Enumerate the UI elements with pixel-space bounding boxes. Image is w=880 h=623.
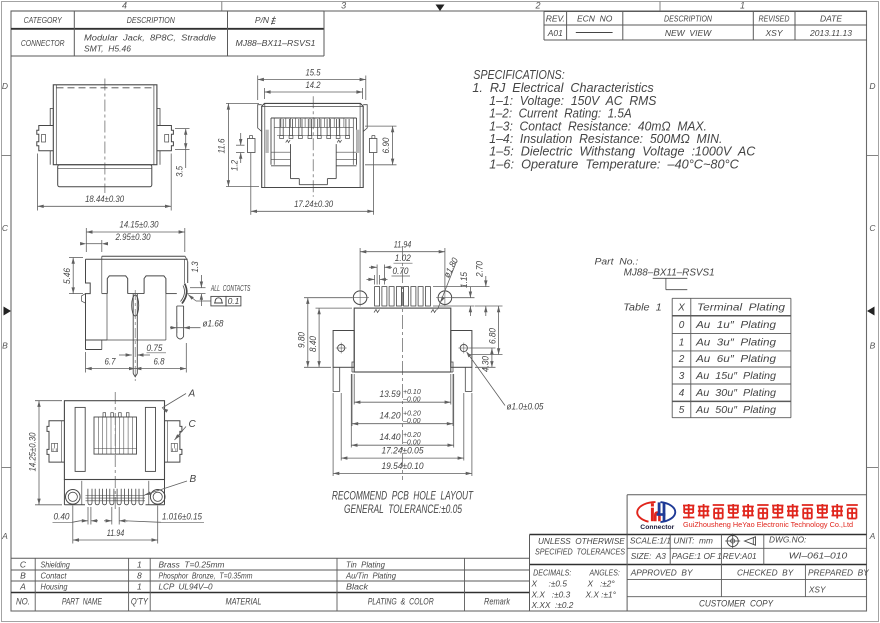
svg-text:Contact: Contact: [41, 571, 68, 580]
table1 grid: [672, 298, 791, 417]
svg-text:0.40: 0.40: [54, 512, 70, 522]
material row A housing: [19, 582, 369, 592]
svg-text:1.3: 1.3: [190, 262, 200, 273]
svg-text:Au 6u″ Plating: Au 6u″ Plating: [695, 354, 777, 365]
svg-text:Au 50u″ Plating: Au 50u″ Plating: [695, 405, 777, 416]
svg-text:MJ88–BX11–RSVS1: MJ88–BX11–RSVS1: [236, 38, 316, 48]
svg-text:XSY: XSY: [764, 28, 783, 38]
svg-text:CHECKED BY: CHECKED BY: [737, 568, 795, 578]
table1 row 0: [679, 320, 777, 331]
svg-text:P/N: P/N: [255, 15, 270, 25]
pcb dim 9.80: [297, 298, 353, 368]
view3 dim 2.95+-0.30: [80, 232, 150, 252]
svg-text:19.54±0.10: 19.54±0.10: [382, 461, 424, 471]
svg-text:PAGE:1 OF 1: PAGE:1 OF 1: [672, 551, 722, 561]
svg-text:Au 30u″ Plating: Au 30u″ Plating: [695, 388, 777, 399]
svg-text:6.7: 6.7: [105, 357, 117, 367]
view3 dim 5.46: [62, 258, 83, 294]
zone tick right lower: [867, 467, 878, 469]
pcb left pilot hole: [351, 289, 369, 307]
svg-text:2: 2: [678, 354, 685, 365]
svg-text:DESCRIPTION: DESCRIPTION: [664, 14, 713, 24]
pcb left bracket: [333, 331, 354, 392]
svg-text:ECN NO: ECN NO: [577, 14, 613, 24]
svg-text:11.94: 11.94: [107, 528, 125, 538]
view4 leader C: [175, 419, 197, 440]
pcb dim 11.94 top: [360, 240, 445, 290]
svg-text:X.X :±1°: X.X :±1°: [585, 589, 617, 599]
svg-text:4: 4: [122, 1, 127, 11]
svg-text:+0.20: +0.20: [403, 432, 421, 439]
svg-text:PART NAME: PART NAME: [62, 597, 102, 608]
svg-text:A: A: [188, 389, 196, 400]
tolerance note UNLESS OTHERWISE: [535, 537, 625, 557]
pcb left bracket hole: [336, 343, 347, 354]
view2 centerline: [312, 96, 314, 197]
svg-text:PLATING & COLOR: PLATING & COLOR: [368, 597, 434, 608]
svg-text:0.75: 0.75: [147, 343, 164, 353]
svg-text:Remark: Remark: [484, 597, 511, 608]
view4 center comb: [94, 413, 137, 454]
pcb dim 13.59: [354, 374, 451, 405]
view4 left mounting post circle: [66, 490, 81, 505]
svg-text:1: 1: [137, 559, 142, 569]
svg-text:Modular Jack, 8P8C, Straddl: Modular Jack, 8P8C, Straddle: [84, 33, 216, 43]
svg-text:Part No.:: Part No.:: [595, 257, 639, 268]
svg-text:WI–061–010: WI–061–010: [789, 551, 848, 561]
svg-text:15.5: 15.5: [306, 68, 322, 78]
pcb centerline: [402, 246, 404, 480]
svg-text:3: 3: [341, 1, 346, 11]
svg-text:ALL CONTACTS: ALL CONTACTS: [210, 284, 251, 293]
view4 dim 14.25+-0.30: [27, 401, 62, 505]
svg-text:4.30: 4.30: [481, 356, 491, 372]
svg-text:6.80: 6.80: [487, 328, 497, 344]
table1 row 2: [678, 354, 777, 365]
pcb dim 2.70: [433, 261, 490, 316]
svg-text:DATE: DATE: [820, 14, 842, 24]
svg-text:2: 2: [534, 1, 540, 11]
logo HY mark: [637, 502, 675, 522]
material row C shielding: [20, 559, 385, 569]
svg-text:XSY: XSY: [808, 585, 827, 595]
svg-text:3.5: 3.5: [174, 165, 184, 177]
svg-text:Terminal Plating: Terminal Plating: [697, 303, 786, 314]
view1 dim 3.5: [174, 129, 187, 177]
svg-text:0.70: 0.70: [393, 266, 409, 276]
pcb dim 1.15: [433, 271, 475, 316]
svg-text:1: 1: [679, 337, 685, 348]
rev cell dash: [576, 32, 613, 34]
svg-text:–0.00: –0.00: [402, 418, 421, 425]
revision table grid: [544, 12, 867, 41]
svg-text:1: 1: [740, 1, 745, 11]
view4 dim 11.94: [73, 506, 158, 544]
svg-text:4: 4: [679, 388, 685, 399]
svg-text:1: 1: [137, 582, 142, 592]
view1 dim 18.44+-0.30: [38, 194, 172, 208]
svg-text:SMT, H5.46: SMT, H5.46: [84, 44, 131, 54]
centering arrow left: [4, 307, 12, 316]
svg-text:GuiZhousheng HeYao Electronic: GuiZhousheng HeYao Electronic Technology…: [683, 520, 853, 529]
view2 body outline: [262, 103, 364, 187]
view3 bottom outline: [86, 294, 166, 350]
svg-text:X :±0.5: X :±0.5: [531, 579, 568, 589]
svg-text:Au/Tin Plating: Au/Tin Plating: [345, 570, 396, 580]
svg-text:1–6: Operature Temperature:: 1–6: Operature Temperature: –40°C~80°C: [489, 157, 739, 171]
svg-text:A: A: [869, 531, 876, 541]
svg-text:13.59: 13.59: [380, 389, 401, 399]
view1 left latch bump: [50, 109, 53, 126]
projection symbol cone: [745, 537, 756, 545]
svg-text:UNLESS OTHERWISE: UNLESS OTHERWISE: [538, 537, 625, 546]
pcb body outline: [352, 308, 453, 372]
svg-text:APPROVED BY: APPROVED BY: [630, 568, 694, 578]
view4 dim 1.016+-0.15: [104, 507, 204, 525]
view2 right ear: [363, 105, 367, 132]
table1 row 1: [679, 337, 777, 348]
zone tick top right: [659, 2, 661, 12]
view3 dim 0.75: [119, 343, 166, 357]
view4 left wing: [47, 421, 64, 462]
svg-text:REV.: REV.: [546, 14, 565, 24]
svg-text:C: C: [20, 559, 27, 569]
svg-text:X.X :±0.3: X.X :±0.3: [531, 589, 571, 599]
view3 right pad: [177, 306, 184, 339]
view1 top view centerline: [104, 79, 106, 194]
table1 row 5: [679, 405, 777, 416]
centering arrow right: [867, 307, 875, 316]
svg-text:LCP UL94V–0: LCP UL94V–0: [159, 582, 213, 592]
svg-text:CATEGORY: CATEGORY: [24, 15, 63, 25]
svg-text:X :±2°: X :±2°: [587, 579, 616, 589]
pcb dim 14.20: [352, 374, 453, 426]
svg-text:GENERAL TOLERANCE:±0.05: GENERAL TOLERANCE:±0.05: [344, 502, 462, 516]
svg-text:ø1.68: ø1.68: [203, 319, 224, 329]
view1 dim 18.44 extension lines: [38, 154, 172, 211]
svg-text:14.25±0.30: 14.25±0.30: [27, 433, 37, 472]
svg-text:11.6: 11.6: [217, 139, 227, 154]
svg-text:8.40: 8.40: [308, 336, 318, 352]
view3 body mid lines: [102, 259, 177, 340]
view3 dims 6.7 and 6.8: [86, 343, 187, 373]
svg-text:NO.: NO.: [16, 597, 30, 608]
pcb right bracket: [451, 331, 472, 392]
svg-text:Au 1u″ Plating: Au 1u″ Plating: [695, 320, 777, 331]
svg-text:D: D: [869, 81, 875, 91]
view2 dim 1.2: [229, 133, 244, 171]
svg-text:DWG.NO:: DWG.NO:: [769, 535, 806, 545]
view3 dim 1.3: [187, 262, 206, 307]
view4 centerline: [114, 392, 116, 509]
svg-text:X: X: [677, 303, 685, 314]
svg-text:SCALE:1/1: SCALE:1/1: [630, 536, 671, 546]
svg-text:3: 3: [679, 371, 685, 382]
view4 right wing: [165, 421, 182, 462]
view2 dim 6.90: [365, 126, 397, 165]
pcb right bracket hole: [458, 343, 469, 354]
part number label: [595, 257, 715, 279]
svg-text:B: B: [20, 570, 26, 580]
pcb dim 14.40: [351, 374, 453, 448]
table1 row 4: [679, 388, 777, 399]
svg-text:Shielding: Shielding: [41, 560, 71, 569]
svg-text:B: B: [190, 474, 197, 485]
svg-text:Phosphor Bronze, T=0.35mm: Phosphor Bronze, T=0.35mm: [159, 571, 253, 580]
svg-text:9.80: 9.80: [297, 332, 307, 348]
svg-text:NEW VIEW: NEW VIEW: [665, 28, 712, 38]
material row B contact: [20, 570, 396, 580]
svg-text:DECIMALS:: DECIMALS:: [533, 568, 571, 578]
svg-text:17.24±0.05: 17.24±0.05: [382, 446, 425, 456]
svg-text:SPECIFICATIONS:: SPECIFICATIONS:: [473, 68, 565, 82]
svg-text:MJ88–BX11–RSVS1: MJ88–BX11–RSVS1: [624, 268, 715, 279]
svg-text:Brass T=0.25mm: Brass T=0.25mm: [159, 559, 225, 569]
material header row: [16, 597, 511, 608]
svg-text:MATERIAL: MATERIAL: [226, 597, 262, 608]
svg-text:C: C: [869, 223, 876, 233]
svg-text:+0.10: +0.10: [403, 389, 421, 396]
view2 right solder pin: [369, 136, 377, 153]
svg-text:0: 0: [679, 320, 685, 331]
view4 right mounting post circle: [150, 490, 165, 505]
svg-text:Table 1: Table 1: [623, 303, 662, 314]
svg-text:REVISED: REVISED: [759, 14, 790, 24]
svg-text:Housing: Housing: [41, 583, 68, 592]
table1 row 3: [679, 371, 777, 382]
svg-text:Tin Plating: Tin Plating: [346, 559, 385, 569]
view3 right shield edge: [185, 259, 188, 283]
svg-text:SPECIFIED TOLERANCES: SPECIFIED TOLERANCES: [535, 548, 625, 557]
view3 leader to contact: [188, 295, 211, 302]
view2 weld mark left: [286, 140, 290, 142]
svg-text:14.15±0.30: 14.15±0.30: [120, 220, 159, 230]
svg-text:–0.00: –0.00: [402, 397, 421, 404]
header P/N cell: [255, 15, 276, 25]
pcb dim 6.80: [469, 306, 503, 355]
svg-text:PREPARED BY: PREPARED BY: [808, 568, 870, 578]
view4 bottom band: [64, 480, 164, 505]
svg-text:A01: A01: [547, 28, 563, 38]
view2 contact pins: [274, 118, 353, 139]
view2 dim 15.5: [258, 68, 366, 101]
pcb dim 4.30: [469, 348, 495, 372]
svg-text:B: B: [2, 341, 8, 351]
svg-text:A: A: [1, 531, 8, 541]
svg-text:ø1.0±0.05: ø1.0±0.05: [507, 402, 545, 412]
view4 dim 0.40: [53, 507, 99, 525]
view2 side shade bands: [266, 130, 360, 153]
pcb dim 8.40: [308, 308, 352, 367]
pcb right pilot hole: [436, 289, 454, 307]
view3 dim dia1.68: [170, 319, 224, 334]
pcb dim 19.54: [333, 393, 472, 476]
svg-text:SIZE: A3: SIZE: A3: [631, 551, 667, 561]
view2 left solder pin: [248, 136, 256, 153]
material table grid: [11, 558, 530, 611]
svg-text:REV:A01: REV:A01: [723, 551, 757, 561]
view3 ALL CONTACTS note: [210, 284, 251, 306]
view4 body outline: [64, 401, 164, 480]
svg-text:Q'TY: Q'TY: [131, 597, 149, 608]
svg-text:5: 5: [679, 405, 685, 416]
view3 top plate: [86, 256, 188, 261]
view4 leader A: [162, 389, 196, 413]
view2 dim 17.24+-0.30: [251, 153, 374, 215]
pcb pad row: [375, 287, 431, 306]
svg-text:14.40: 14.40: [380, 432, 401, 442]
view3 top bump 1: [107, 276, 127, 294]
cell description Modular Jack: [84, 33, 216, 54]
centering arrow top: [436, 5, 445, 12]
svg-text:1.15: 1.15: [459, 271, 469, 288]
view2 dim 11.6: [217, 103, 260, 186]
svg-text:Au 15u″ Plating: Au 15u″ Plating: [695, 371, 777, 382]
pcb dim 0.70: [367, 266, 411, 285]
svg-text:DESCRIPTION: DESCRIPTION: [127, 15, 176, 25]
svg-text:CONNECTOR: CONNECTOR: [21, 38, 65, 48]
view1 left side step: [49, 151, 51, 165]
view1 left wing: [37, 126, 54, 151]
svg-text:6.8: 6.8: [154, 357, 165, 367]
view1 right side step: [159, 151, 161, 165]
svg-text:D: D: [2, 81, 8, 91]
view1 body outline: [53, 85, 157, 165]
pcb weld mark left: [374, 310, 380, 313]
svg-text:6.90: 6.90: [381, 138, 391, 154]
title block grid: [530, 535, 867, 612]
view3 top bump 2: [144, 276, 166, 294]
view1 bottom block: [58, 165, 152, 187]
zone tick left upper: [2, 155, 12, 157]
logo box: [627, 495, 866, 535]
svg-text:11.94: 11.94: [394, 240, 412, 250]
part number X pointer bracket: [653, 278, 688, 289]
svg-text:Black: Black: [346, 582, 369, 592]
view4 leader B: [145, 474, 197, 495]
svg-text:18.44±0.30: 18.44±0.30: [85, 194, 124, 204]
zone tick right upper: [867, 155, 878, 157]
svg-text:C: C: [189, 419, 197, 430]
tolerance decimals block: [531, 568, 620, 611]
view2 latch window: [271, 144, 357, 185]
header table grid: [11, 11, 324, 56]
view4 right slot: [145, 407, 155, 471]
svg-text:2013.11.13: 2013.11.13: [809, 28, 852, 38]
pcb dim 1.02: [369, 253, 413, 285]
svg-text:ANGLES:: ANGLES:: [589, 568, 620, 578]
svg-text:RECOMMEND PCB HOLE LAYOUT: RECOMMEND PCB HOLE LAYOUT: [332, 489, 474, 503]
svg-text:1.2: 1.2: [229, 160, 239, 171]
svg-text:Connector: Connector: [640, 524, 674, 531]
view1 dim 3.5 extension lines: [175, 129, 190, 150]
view2 weld mark right: [337, 140, 341, 142]
svg-text:B: B: [870, 341, 876, 351]
svg-text:0.1: 0.1: [228, 296, 240, 306]
svg-text:Au 3u″ Plating: Au 3u″ Plating: [695, 337, 777, 348]
svg-text:X.XX :±0.2: X.XX :±0.2: [531, 600, 574, 610]
svg-text:14.20: 14.20: [380, 411, 401, 421]
svg-text:5.46: 5.46: [62, 268, 72, 284]
projection symbol first-angle circle: [725, 534, 740, 549]
svg-text:17.24±0.30: 17.24±0.30: [294, 199, 333, 209]
view2 dim 14.2: [264, 80, 362, 99]
svg-text:A: A: [19, 582, 26, 592]
pcb dim dia1.0 leader: [466, 351, 544, 411]
svg-text:14.2: 14.2: [306, 80, 321, 90]
view3 dim 14.15+-0.30: [86, 220, 185, 253]
zone tick left lower: [2, 467, 12, 469]
specifications text block: [472, 68, 756, 171]
view1 right latch bump: [157, 109, 160, 126]
view3 bent contact: [181, 284, 187, 304]
pcb weld mark right: [431, 310, 437, 313]
view4 bottom pins comb: [86, 489, 146, 505]
svg-text:C: C: [2, 223, 9, 233]
view3 center contact pin: [132, 290, 139, 381]
svg-text:1.02: 1.02: [395, 253, 411, 263]
svg-text:+0.20: +0.20: [403, 411, 421, 418]
view2 jack opening: [271, 118, 357, 166]
svg-text:8: 8: [137, 570, 142, 580]
pcb dim 17.24: [341, 393, 464, 461]
svg-text:1.016±0.15: 1.016±0.15: [162, 512, 203, 522]
svg-text:2.70: 2.70: [475, 261, 485, 278]
pcb dim dia1.80 leader: [438, 256, 461, 309]
view2 left ear: [258, 105, 262, 132]
view4 left slot: [75, 407, 85, 471]
svg-text:CUSTOMER COPY: CUSTOMER COPY: [699, 599, 774, 610]
view1 right wing: [157, 126, 174, 151]
view3 left profile: [82, 259, 91, 340]
zone tick top left: [221, 2, 223, 12]
table1 header row: [677, 303, 785, 314]
svg-text:UNIT: mm: UNIT: mm: [673, 536, 713, 546]
svg-text:2.95±0.30: 2.95±0.30: [115, 232, 151, 242]
company name Chinese: [683, 504, 858, 519]
